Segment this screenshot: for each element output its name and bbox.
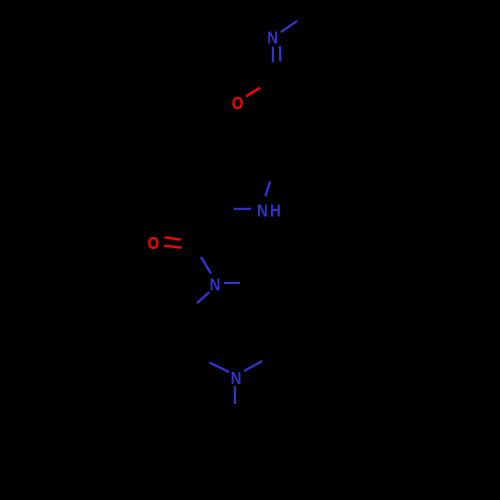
svg-text:N: N — [267, 29, 278, 48]
bond N1-C6 (blue half, up-right) — [281, 21, 297, 32]
bond C=O upper line (red half) — [165, 237, 181, 239]
bond N-C(=O) (blue half, up-left) — [201, 257, 211, 274]
svg-text:O: O — [232, 94, 244, 113]
svg-text:O: O — [147, 234, 159, 253]
bond NH-CH2 (blue half, up) — [265, 181, 270, 196]
bond C=O lower line (red half) — [164, 246, 182, 248]
svg-text:H: H — [270, 201, 281, 220]
bond N-CH2 ring (blue half, down-left) — [197, 292, 209, 303]
bond N4-CH2 substituent (blue half, down vertical) — [234, 386, 236, 404]
bond N1=C2 inner line (blue half, vertical) — [279, 46, 282, 61]
svg-text:N: N — [231, 369, 242, 388]
svg-text:N: N — [257, 201, 268, 220]
bond N-CH2 ring (blue half, right horizontal) — [224, 282, 240, 284]
bond NH-C2' (blue half, left horizontal) — [234, 208, 251, 210]
bond N4-CH2 ring (blue half, up-left) — [210, 363, 230, 372]
bond N4-CH2 ring (blue half, up-right) — [244, 361, 262, 371]
bond O-C2 (red half, up-right) — [246, 88, 260, 97]
svg-text:N: N — [210, 275, 221, 294]
bond N1=C2 outer line (blue half, vertical) — [272, 47, 274, 63]
